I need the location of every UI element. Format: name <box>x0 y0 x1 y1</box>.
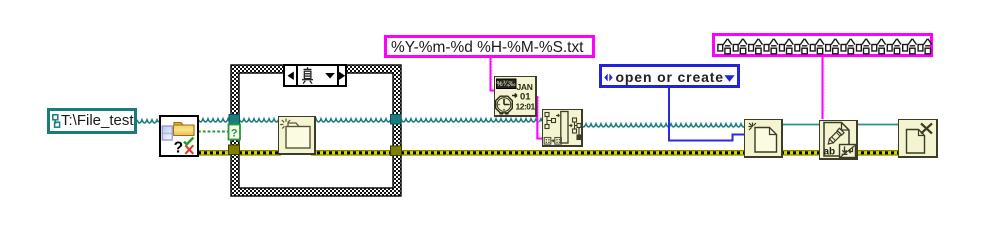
svg-text:JAN: JAN <box>517 82 533 92</box>
svg-text:?: ? <box>231 128 238 140</box>
svg-text:ab: ab <box>823 146 835 157</box>
svg-text:?: ? <box>174 139 183 155</box>
svg-text:12:01: 12:01 <box>516 102 536 112</box>
svg-text:%¾‰: %¾‰ <box>496 80 515 88</box>
